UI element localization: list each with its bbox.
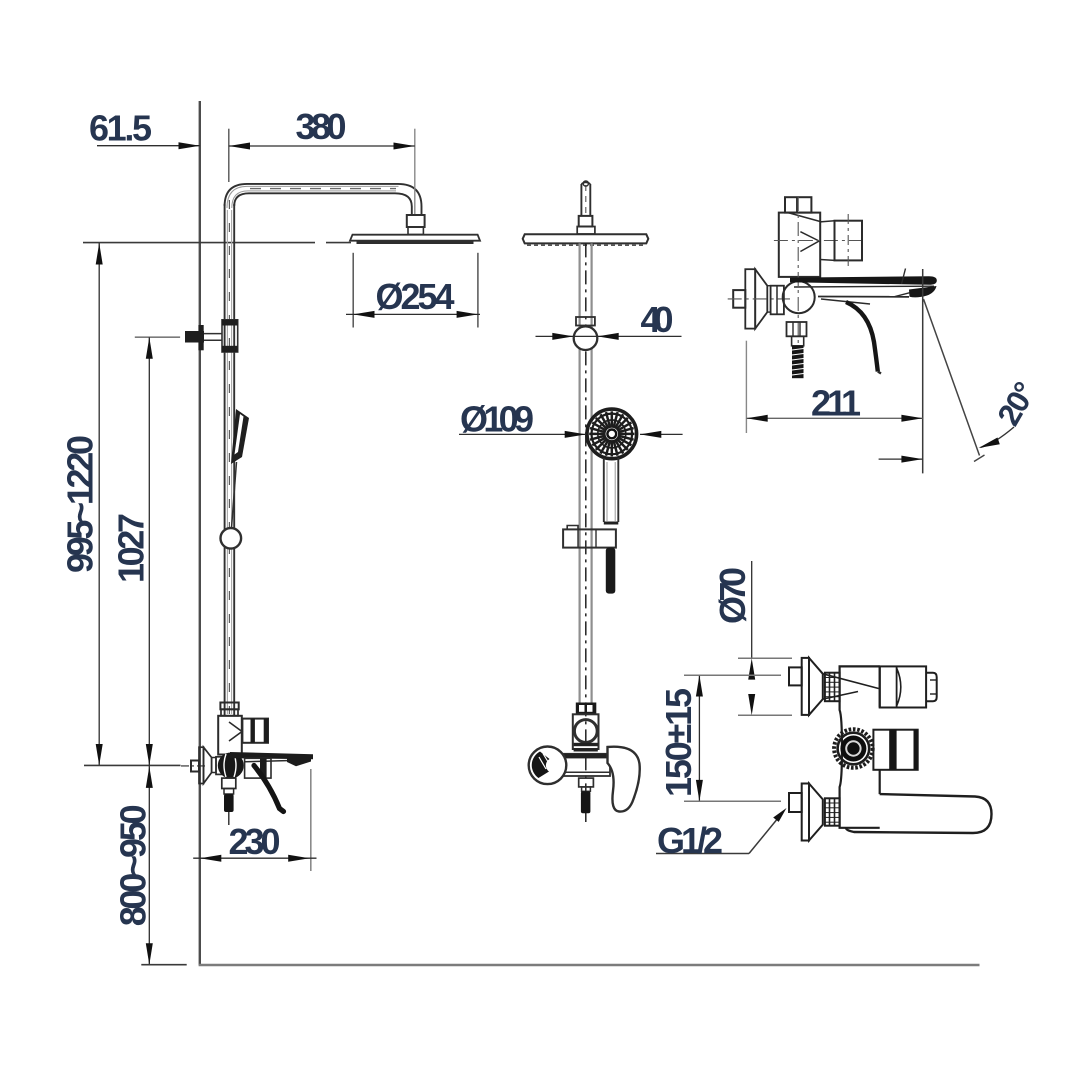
escutcheon bbox=[745, 269, 755, 328]
supply stub bbox=[733, 290, 745, 308]
svg-text:150±15: 150±15 bbox=[658, 688, 699, 797]
threaded hose stub bbox=[792, 336, 804, 346]
dim 995~1220 bbox=[98, 243, 100, 765]
top pipe bbox=[580, 184, 582, 216]
dim 40 bbox=[536, 335, 682, 337]
shower arm bbox=[225, 184, 422, 215]
svg-text:Ø109: Ø109 bbox=[460, 399, 534, 440]
lower nut bbox=[787, 322, 807, 336]
head bottom lip bbox=[357, 241, 474, 244]
spout side view bbox=[790, 276, 937, 285]
svg-text:Ø70: Ø70 bbox=[712, 567, 753, 624]
dim 1027 bbox=[135, 336, 180, 338]
hose connector black bbox=[581, 791, 591, 813]
spout (front mixer) bbox=[230, 752, 313, 759]
right square knob bbox=[873, 730, 917, 770]
dim 380 bbox=[228, 129, 230, 182]
side mixer: top nut bbox=[576, 703, 597, 715]
svg-text:40: 40 bbox=[641, 299, 674, 340]
upper supply stub bbox=[789, 667, 802, 685]
svg-text:800~950: 800~950 bbox=[113, 804, 154, 926]
dark outlet circle bbox=[834, 729, 873, 768]
hand shower handle bbox=[603, 458, 605, 522]
20 degree arc leader bbox=[981, 427, 1015, 448]
arm nut bbox=[407, 215, 425, 227]
mixer ball bbox=[218, 753, 244, 779]
bands below knob bbox=[574, 743, 598, 746]
shower holder bbox=[567, 526, 578, 530]
dim 211 bbox=[745, 341, 747, 433]
slider body bbox=[574, 326, 598, 350]
side mixer body bbox=[573, 714, 599, 749]
211 tick on spout tip bbox=[902, 269, 906, 285]
below: outlet nut bbox=[579, 778, 594, 787]
hand shower face bbox=[587, 409, 637, 459]
riser pipe front view bbox=[224, 204, 226, 716]
mixer body bbox=[218, 716, 242, 755]
diverter square bbox=[242, 719, 268, 743]
holder rod (dark) bbox=[606, 548, 616, 594]
centre lines bbox=[774, 240, 863, 242]
hose connector (black) bbox=[224, 794, 234, 812]
head nozzles dashes bbox=[527, 244, 645, 246]
dim 800~950 bbox=[148, 765, 150, 964]
side knob circle bbox=[574, 720, 597, 743]
dim Ø109 bbox=[459, 433, 586, 435]
svg-text:230: 230 bbox=[229, 821, 281, 862]
handle (top view) bbox=[846, 794, 992, 833]
connection nut bbox=[216, 757, 222, 775]
ball joint bbox=[783, 281, 815, 313]
hand shower parked (front) bbox=[231, 409, 249, 464]
outlet nut below ball bbox=[222, 778, 236, 788]
svg-text:1027: 1027 bbox=[111, 513, 152, 583]
top cap bbox=[785, 197, 811, 212]
dim Ø70 bbox=[751, 561, 753, 658]
shower-head level reference line bbox=[83, 242, 315, 244]
lower supply stub bbox=[789, 793, 802, 812]
upper escutcheon bbox=[802, 658, 809, 715]
slider ring bbox=[221, 528, 242, 549]
dim 230 bbox=[310, 769, 312, 871]
cartridge cylinder bbox=[880, 666, 926, 707]
dim 61.5 bbox=[97, 145, 200, 147]
dim Ø254 bbox=[352, 253, 354, 328]
svg-text:211: 211 bbox=[811, 383, 861, 424]
G1/2 leader bbox=[656, 853, 749, 855]
diverter square (side) bbox=[835, 221, 863, 261]
slider nut bbox=[576, 317, 595, 326]
vertical body bbox=[779, 213, 820, 277]
body under spout bbox=[245, 758, 271, 778]
top nut bbox=[579, 216, 593, 227]
svg-text:61.5: 61.5 bbox=[89, 108, 152, 149]
dim 150±15 bbox=[698, 675, 700, 801]
nut bbox=[771, 286, 784, 315]
wall bracket bbox=[185, 331, 204, 343]
floor line bbox=[199, 964, 980, 967]
svg-text:G1/2: G1/2 bbox=[657, 820, 723, 861]
svg-text:995~1220: 995~1220 bbox=[60, 435, 101, 573]
upper nut bbox=[825, 673, 840, 702]
rain shower head front bbox=[350, 235, 480, 241]
supply stub bbox=[191, 761, 199, 772]
lower escutcheon bbox=[802, 784, 809, 841]
spout end cap circle bbox=[529, 747, 567, 785]
escutcheon (front mixer) bbox=[199, 747, 204, 783]
svg-text:380: 380 bbox=[296, 106, 347, 147]
riser-to-mixer nut bbox=[220, 703, 238, 710]
side handle bbox=[608, 747, 640, 812]
rain head edge-on bbox=[523, 234, 649, 243]
20 degree tail arrow bbox=[879, 458, 923, 460]
riser side view bbox=[578, 243, 580, 703]
20 degree line bbox=[924, 299, 980, 456]
body bbox=[840, 666, 880, 827]
handle (side) bbox=[821, 299, 870, 304]
svg-text:Ø254: Ø254 bbox=[376, 276, 455, 317]
handle lever (front mixer) bbox=[254, 766, 284, 812]
lower nut bbox=[825, 798, 840, 825]
horizontal body (side) bbox=[548, 754, 610, 776]
wall line bbox=[199, 101, 201, 965]
